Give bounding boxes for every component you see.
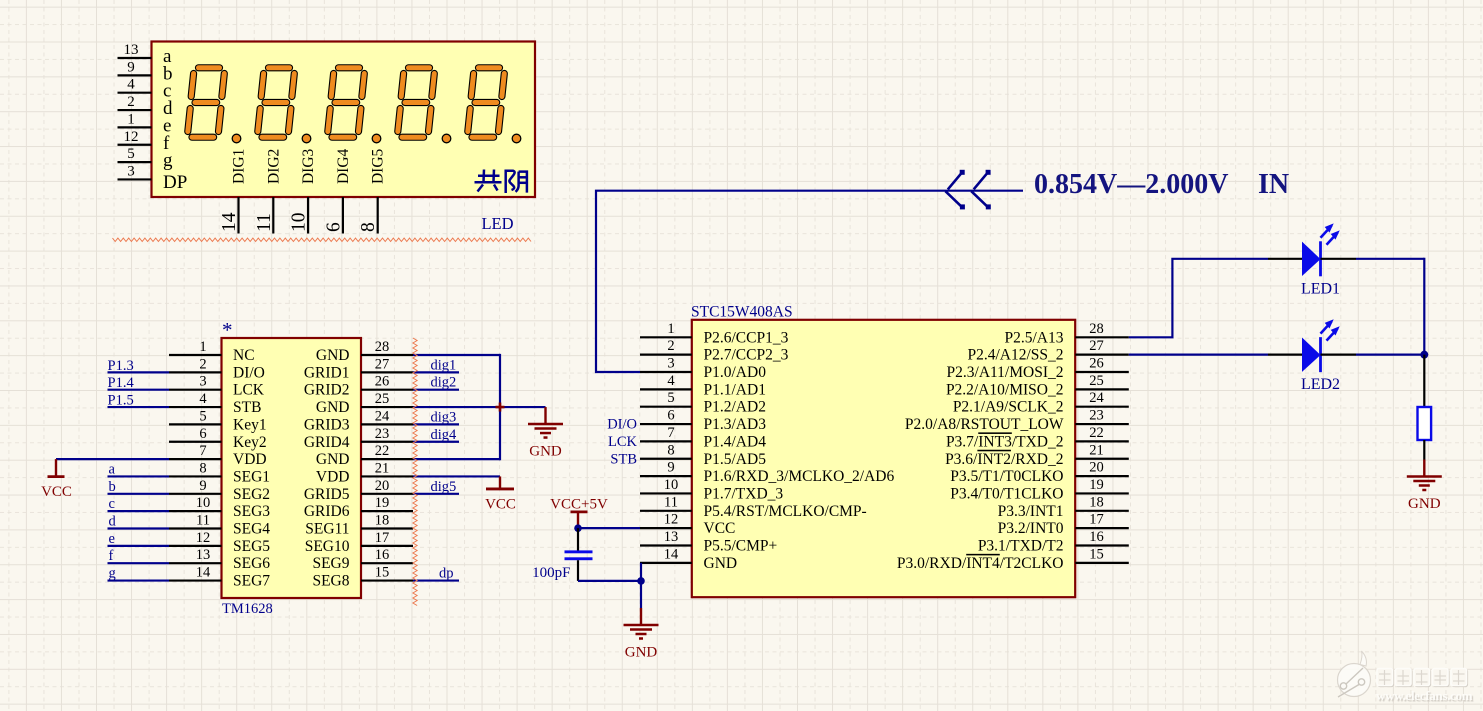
- svg-text:P3.1/TXD/T2: P3.1/TXD/T2: [978, 538, 1064, 555]
- 7-segment digit 1: [188, 68, 241, 143]
- wire net dp: [413, 579, 459, 581]
- svg-text:8: 8: [667, 442, 674, 458]
- svg-text:Key1: Key1: [233, 416, 267, 433]
- svg-text:d: d: [109, 514, 117, 530]
- svg-text:SEG10: SEG10: [305, 538, 350, 555]
- svg-text:2: 2: [667, 338, 674, 354]
- svg-text:GND: GND: [1408, 496, 1441, 512]
- capacitor C 100pF: [577, 528, 579, 551]
- svg-text:www.elecfans.com: www.elecfans.com: [1376, 688, 1473, 703]
- svg-text:DI/O: DI/O: [233, 364, 265, 381]
- svg-text:17: 17: [375, 530, 390, 546]
- svg-text:P1.1/AD1: P1.1/AD1: [704, 381, 766, 398]
- svg-text:4: 4: [667, 373, 675, 389]
- svg-text:dp: dp: [439, 566, 454, 582]
- svg-text:9: 9: [199, 478, 206, 494]
- svg-text:5: 5: [667, 390, 674, 406]
- LED LED2 pin left: [1268, 354, 1302, 356]
- LED LED2 emission arrow 2: [1327, 329, 1338, 341]
- wire net b: [108, 493, 170, 495]
- svg-text:15: 15: [1089, 546, 1104, 562]
- wire net c: [108, 510, 170, 512]
- svg-text:P2.7/CCP2_3: P2.7/CCP2_3: [704, 347, 789, 364]
- TM1628 pin 5 wire: [169, 423, 222, 425]
- svg-text:GRID2: GRID2: [304, 382, 350, 399]
- svg-text:P3.6/INT2/RXD_2: P3.6/INT2/RXD_2: [945, 451, 1063, 468]
- display bottom pin 11 wire: [272, 197, 274, 234]
- svg-text:GND: GND: [316, 451, 350, 468]
- svg-text:DIG2: DIG2: [265, 149, 282, 184]
- svg-text:26: 26: [1089, 356, 1104, 372]
- svg-text:GND: GND: [704, 555, 738, 572]
- TM1628 pin 28 wire: [361, 354, 413, 356]
- wire net dig1: [413, 371, 459, 373]
- STC pin 20 wire: [1075, 475, 1129, 477]
- TM1628 pin 11 wire: [169, 527, 222, 529]
- svg-text:5: 5: [127, 146, 135, 162]
- svg-text:20: 20: [1089, 460, 1104, 476]
- display pin 9 wire: [118, 74, 152, 76]
- wire LED1 out: [1356, 258, 1424, 260]
- STC pin 27 wire: [1075, 354, 1129, 356]
- svg-text:NC: NC: [233, 347, 255, 364]
- TM1628 pin 15 wire: [361, 579, 413, 581]
- LED LED2 emission arrow 1: [1321, 322, 1332, 334]
- svg-text:VCC+5V: VCC+5V: [550, 496, 608, 512]
- TM1628 pin 7 wire: [169, 458, 222, 460]
- svg-text:14: 14: [219, 212, 240, 232]
- svg-text:24: 24: [1089, 390, 1104, 406]
- svg-text:20: 20: [375, 478, 390, 494]
- wire GND pin22 horizontal: [413, 458, 500, 460]
- svg-text:26: 26: [375, 374, 390, 390]
- svg-text:23: 23: [1089, 408, 1104, 424]
- svg-text:21: 21: [1089, 442, 1104, 458]
- svg-text:1: 1: [199, 339, 206, 355]
- svg-text:11: 11: [664, 494, 678, 510]
- svg-text:VCC: VCC: [485, 496, 516, 512]
- svg-text:P3.4/T0/T1CLKO: P3.4/T0/T1CLKO: [950, 485, 1063, 502]
- ground symbol GND below STC: [640, 608, 642, 625]
- resistor R: [1418, 407, 1432, 440]
- svg-text:2: 2: [127, 94, 135, 110]
- svg-text:10: 10: [196, 495, 211, 511]
- svg-text:P2.0/A8/RSTOUT_LOW: P2.0/A8/RSTOUT_LOW: [905, 416, 1064, 433]
- svg-text:e: e: [109, 531, 115, 547]
- svg-text:19: 19: [375, 495, 390, 511]
- STC pin 10 wire: [640, 492, 692, 494]
- svg-text:LED1: LED1: [1301, 280, 1340, 297]
- svg-text:P1.5/AD5: P1.5/AD5: [704, 451, 767, 468]
- svg-text:6: 6: [667, 408, 674, 424]
- svg-text:6: 6: [199, 426, 206, 442]
- svg-text:5: 5: [199, 408, 206, 424]
- svg-text:STB: STB: [610, 451, 637, 467]
- STC pin 21 wire: [1075, 458, 1129, 460]
- wire GND vertical: [499, 354, 501, 460]
- STC pin 2 wire: [640, 354, 692, 356]
- svg-text:dig3: dig3: [431, 409, 457, 425]
- svg-text:10: 10: [289, 213, 310, 233]
- display pin 12 wire: [118, 144, 152, 146]
- STC pin 4 wire: [640, 388, 692, 390]
- display pin 3 wire: [118, 178, 152, 180]
- display pin 2 wire: [118, 109, 152, 111]
- svg-text:dig4: dig4: [431, 427, 458, 443]
- TM1628 pin 13 wire: [169, 562, 222, 564]
- svg-text:STB: STB: [233, 399, 261, 416]
- 7-segment digit 3: [328, 68, 381, 143]
- STC pin 19 wire: [1075, 492, 1129, 494]
- svg-text:16: 16: [375, 547, 390, 563]
- svg-text:6: 6: [323, 222, 344, 232]
- svg-text:LED2: LED2: [1301, 376, 1340, 393]
- svg-text:LCK: LCK: [608, 434, 638, 450]
- svg-text:28: 28: [1089, 321, 1104, 337]
- svg-text:3: 3: [127, 163, 135, 179]
- TM1628 pin 6 wire: [169, 441, 222, 443]
- svg-text:*: *: [222, 318, 233, 342]
- STC pin 13 wire: [640, 544, 692, 546]
- svg-text:0.854V—2.000V: 0.854V—2.000V: [1034, 169, 1228, 200]
- TM1628 pin 2 wire: [169, 371, 222, 373]
- ground symbol GND right: [1423, 460, 1425, 477]
- svg-text:13: 13: [124, 42, 139, 58]
- svg-text:1: 1: [127, 111, 135, 127]
- display bottom pin 8 wire: [377, 197, 379, 234]
- svg-text:SEG8: SEG8: [312, 573, 349, 590]
- wire GND pin25 horizontal: [413, 406, 546, 408]
- svg-text:GRID3: GRID3: [304, 416, 350, 433]
- svg-text:g: g: [109, 566, 116, 582]
- svg-text:GRID5: GRID5: [304, 486, 350, 503]
- svg-text:P5.4/RST/MCLKO/CMP-: P5.4/RST/MCLKO/CMP-: [704, 503, 867, 520]
- watermark logo circle: [1338, 651, 1371, 697]
- TM1628 pin 18 wire: [361, 527, 413, 529]
- TM1628 pin 19 wire: [361, 510, 413, 512]
- 7-segment digit 5: [468, 68, 521, 143]
- wire VDD pin21 horizontal: [413, 475, 500, 477]
- LED LED2 cathode bar: [1319, 337, 1322, 372]
- svg-text:4: 4: [199, 391, 207, 407]
- STC pin 16 wire: [1075, 544, 1129, 546]
- input port chevron 2: [971, 170, 991, 210]
- TM1628 pin 9 wire: [169, 493, 222, 495]
- svg-text:SEG1: SEG1: [233, 468, 270, 485]
- STC pin 23 wire: [1075, 423, 1129, 425]
- svg-text:P1.2/AD2: P1.2/AD2: [704, 399, 766, 416]
- svg-text:P1.3: P1.3: [108, 358, 134, 374]
- wire GND pin28 horizontal: [413, 354, 500, 356]
- svg-text:22: 22: [1089, 425, 1104, 441]
- svg-text:100pF: 100pF: [532, 565, 570, 581]
- svg-text:P1.4/AD4: P1.4/AD4: [704, 433, 767, 450]
- svg-text:VCC: VCC: [704, 520, 736, 537]
- wire VDD pin7 to VCC: [56, 458, 169, 460]
- svg-text:13: 13: [196, 547, 211, 563]
- svg-text:25: 25: [375, 391, 390, 407]
- junction GND net: [637, 577, 645, 585]
- display pin 5 wire: [118, 161, 152, 163]
- svg-text:GND: GND: [529, 444, 562, 460]
- wire net dig3: [413, 423, 459, 425]
- svg-text:GRID1: GRID1: [304, 364, 350, 381]
- svg-text:IN: IN: [1258, 169, 1289, 200]
- svg-text:dig2: dig2: [431, 375, 457, 391]
- svg-text:VDD: VDD: [233, 451, 267, 468]
- red zigzag marker under display: [113, 238, 532, 241]
- svg-text:dig1: dig1: [431, 357, 457, 373]
- svg-text:g: g: [163, 150, 173, 171]
- svg-text:DIG5: DIG5: [370, 148, 387, 184]
- wire LED1 down to junction: [1423, 258, 1425, 355]
- STC pin 18 wire: [1075, 510, 1129, 512]
- LED LED1 pin right: [1321, 258, 1357, 260]
- svg-text:DIG3: DIG3: [300, 148, 317, 184]
- text GongYin (common cathode): [475, 170, 527, 194]
- wire net dig5: [413, 493, 459, 495]
- TM1628 pin 27 wire: [361, 371, 413, 373]
- TM1628 pin 14 wire: [169, 579, 222, 581]
- svg-text:SEG3: SEG3: [233, 503, 270, 520]
- TM1628 pin 8 wire: [169, 475, 222, 477]
- svg-text:3: 3: [667, 356, 674, 372]
- wire net a: [108, 475, 170, 477]
- junction VCC/cap: [574, 524, 582, 532]
- STC pin 8 wire: [640, 458, 692, 460]
- svg-text:SEG7: SEG7: [233, 573, 270, 590]
- svg-text:P3.7/INT3/TXD_2: P3.7/INT3/TXD_2: [946, 433, 1064, 450]
- svg-text:DI/O: DI/O: [607, 417, 637, 433]
- STC pin 9 wire: [640, 475, 692, 477]
- svg-text:18: 18: [1089, 494, 1104, 510]
- STC pin 15 wire: [1075, 562, 1129, 564]
- svg-text:19: 19: [1089, 477, 1104, 493]
- TM1628 pin 10 wire: [169, 510, 222, 512]
- svg-text:SEG5: SEG5: [233, 538, 270, 555]
- TM1628 pin 24 wire: [361, 423, 413, 425]
- wire VCC pin12: [578, 527, 640, 529]
- svg-text:GRID6: GRID6: [304, 503, 350, 520]
- svg-text:15: 15: [375, 565, 390, 581]
- LED display module body: [152, 42, 536, 198]
- svg-text:12: 12: [124, 129, 139, 145]
- svg-text:DP: DP: [163, 172, 187, 193]
- TM1628 pin 3 wire: [169, 389, 222, 391]
- svg-text:2: 2: [199, 356, 206, 372]
- wire net e: [108, 545, 170, 547]
- STC pin 12 wire: [640, 527, 692, 529]
- svg-text:25: 25: [1089, 373, 1104, 389]
- TM1628 pin 21 wire: [361, 475, 413, 477]
- svg-text:P2.2/A10/MISO_2: P2.2/A10/MISO_2: [946, 381, 1064, 398]
- TM1628 pin 25 wire: [361, 406, 413, 408]
- STC pin 6 wire: [640, 423, 692, 425]
- wire net d: [108, 527, 170, 529]
- svg-text:DIG1: DIG1: [231, 149, 248, 184]
- wire LED2 out: [1356, 354, 1424, 356]
- 7-segment digit 4: [398, 68, 451, 143]
- svg-text:4: 4: [127, 77, 135, 93]
- svg-text:P5.5/CMP+: P5.5/CMP+: [704, 538, 778, 555]
- wire resistor to GND: [1423, 440, 1425, 460]
- svg-text:VDD: VDD: [316, 468, 350, 485]
- svg-text:VCC: VCC: [41, 484, 72, 500]
- junction at GND cross: [496, 403, 505, 412]
- svg-text:LED: LED: [481, 214, 513, 233]
- display bottom pin 14 wire: [237, 197, 239, 234]
- STC pin 3 wire: [640, 371, 692, 373]
- display pin 13 wire: [118, 57, 152, 59]
- TM1628 pin 22 wire: [361, 458, 413, 460]
- svg-text:22: 22: [375, 443, 390, 459]
- svg-text:P3.2/INT0: P3.2/INT0: [998, 520, 1064, 537]
- svg-text:8: 8: [199, 460, 206, 476]
- svg-text:GRID4: GRID4: [304, 434, 350, 451]
- svg-text:17: 17: [1089, 512, 1104, 528]
- svg-text:P1.7/TXD_3: P1.7/TXD_3: [704, 485, 784, 502]
- ground symbol GND near TM1628: [544, 407, 546, 424]
- svg-text:P2.4/A12/SS_2: P2.4/A12/SS_2: [967, 347, 1063, 364]
- svg-text:dig5: dig5: [431, 479, 457, 495]
- TM1628 pin 23 wire: [361, 441, 413, 443]
- svg-text:8: 8: [358, 222, 379, 232]
- LED LED2 pin right: [1321, 354, 1357, 356]
- svg-text:10: 10: [664, 477, 679, 493]
- svg-text:TM1628: TM1628: [222, 601, 273, 617]
- svg-text:P2.3/A11/MOSI_2: P2.3/A11/MOSI_2: [947, 364, 1064, 381]
- svg-text:GND: GND: [316, 347, 350, 364]
- svg-text:f: f: [109, 548, 114, 564]
- svg-text:9: 9: [127, 59, 135, 75]
- svg-text:SEG9: SEG9: [312, 555, 349, 572]
- wire net dig2: [413, 389, 459, 391]
- wire pin28 to LED1: [1129, 259, 1268, 338]
- STC pin 17 wire: [1075, 527, 1129, 529]
- STC pin 28 wire: [1075, 336, 1129, 338]
- input port chevron 1: [945, 170, 965, 210]
- power port VCC left: [55, 459, 57, 477]
- STC pin 7 wire: [640, 440, 692, 442]
- TM1628 pin 4 wire: [169, 406, 222, 408]
- svg-text:SEG2: SEG2: [233, 486, 270, 503]
- orange zigzag marker right of TM1628: [413, 338, 417, 606]
- svg-text:SEG6: SEG6: [233, 555, 270, 572]
- wire net g: [108, 579, 170, 581]
- wire net dig4: [413, 441, 459, 443]
- LED LED1 emission arrow 2: [1327, 233, 1338, 245]
- svg-text:9: 9: [667, 460, 674, 476]
- svg-text:P1.3/AD3: P1.3/AD3: [704, 416, 767, 433]
- svg-text:P3.3/INT1: P3.3/INT1: [998, 503, 1064, 520]
- power port VCC+5V: [577, 512, 579, 528]
- wire net f: [108, 562, 170, 564]
- svg-text:14: 14: [196, 565, 211, 581]
- svg-text:P1.6/RXD_3/MCLKO_2/AD6: P1.6/RXD_3/MCLKO_2/AD6: [704, 468, 895, 485]
- IC TM1628 body: [222, 338, 362, 598]
- svg-text:27: 27: [1089, 338, 1104, 354]
- svg-text:STC15W408AS: STC15W408AS: [691, 304, 793, 321]
- svg-text:18: 18: [375, 513, 390, 529]
- svg-text:24: 24: [375, 408, 390, 424]
- TM1628 pin 1 wire: [169, 354, 222, 356]
- power port VCC right of TM1628: [499, 476, 501, 489]
- svg-text:c: c: [109, 496, 115, 512]
- display pin 1 wire: [118, 126, 152, 128]
- STC pin 14 wire: [640, 562, 692, 564]
- svg-text:1: 1: [667, 321, 674, 337]
- svg-text:GND: GND: [625, 645, 658, 661]
- LED LED1 cathode bar: [1319, 241, 1322, 276]
- svg-text:12: 12: [664, 512, 679, 528]
- wire GND pin14 down: [640, 563, 642, 608]
- TM1628 pin 26 wire: [361, 389, 413, 391]
- LED LED1 emission arrow 1: [1321, 226, 1332, 238]
- svg-text:DIG4: DIG4: [335, 148, 352, 184]
- svg-text:12: 12: [196, 530, 211, 546]
- TM1628 pin 12 wire: [169, 545, 222, 547]
- svg-text:SEG4: SEG4: [233, 521, 270, 538]
- svg-text:LCK: LCK: [233, 382, 265, 399]
- 7-segment digit 2: [258, 68, 311, 143]
- wire pin27 to LED2: [1129, 354, 1268, 356]
- watermark chinese text blocks: [1377, 669, 1468, 687]
- svg-text:Key2: Key2: [233, 434, 267, 451]
- svg-text:b: b: [109, 479, 116, 495]
- wire junction to resistor: [1423, 355, 1425, 407]
- svg-text:P3.5/T1/T0CLKO: P3.5/T1/T0CLKO: [950, 468, 1063, 485]
- svg-text:23: 23: [375, 426, 390, 442]
- display bottom pin 6 wire: [342, 197, 344, 234]
- svg-text:7: 7: [199, 443, 206, 459]
- svg-text:GND: GND: [316, 399, 350, 416]
- svg-text:3: 3: [199, 374, 206, 390]
- STC pin 24 wire: [1075, 406, 1129, 408]
- STC pin 1 wire: [640, 336, 692, 338]
- svg-text:16: 16: [1089, 529, 1104, 545]
- svg-text:13: 13: [664, 529, 679, 545]
- STC pin 11 wire: [640, 510, 692, 512]
- svg-text:P2.1/A9/SCLK_2: P2.1/A9/SCLK_2: [953, 399, 1064, 416]
- LED LED2 triangle: [1302, 337, 1321, 371]
- wire net P1.4: [108, 389, 170, 391]
- wire P1.0/AD0 input net: [596, 191, 1023, 372]
- TM1628 pin 17 wire: [361, 545, 413, 547]
- wire net P1.3: [108, 371, 170, 373]
- display bottom pin 10 wire: [307, 197, 309, 234]
- TM1628 pin 20 wire: [361, 493, 413, 495]
- display pin 4 wire: [118, 92, 152, 94]
- svg-text:21: 21: [375, 460, 390, 476]
- LED LED1 triangle: [1302, 242, 1321, 276]
- STC pin 22 wire: [1075, 440, 1129, 442]
- svg-text:P2.6/CCP1_3: P2.6/CCP1_3: [704, 329, 789, 346]
- LED LED1 pin left: [1268, 258, 1302, 260]
- svg-text:P1.4: P1.4: [108, 375, 135, 391]
- STC pin 25 wire: [1075, 388, 1129, 390]
- svg-text:7: 7: [667, 425, 674, 441]
- STC pin 26 wire: [1075, 371, 1129, 373]
- IC STC15W408AS body: [692, 320, 1075, 597]
- svg-text:27: 27: [375, 356, 390, 372]
- svg-text:11: 11: [254, 213, 275, 232]
- junction LED output: [1420, 351, 1428, 359]
- TM1628 pin 16 wire: [361, 562, 413, 564]
- svg-text:P2.5/A13: P2.5/A13: [1005, 329, 1064, 346]
- svg-text:a: a: [109, 461, 116, 477]
- svg-text:28: 28: [375, 339, 390, 355]
- svg-text:P1.5: P1.5: [108, 393, 134, 409]
